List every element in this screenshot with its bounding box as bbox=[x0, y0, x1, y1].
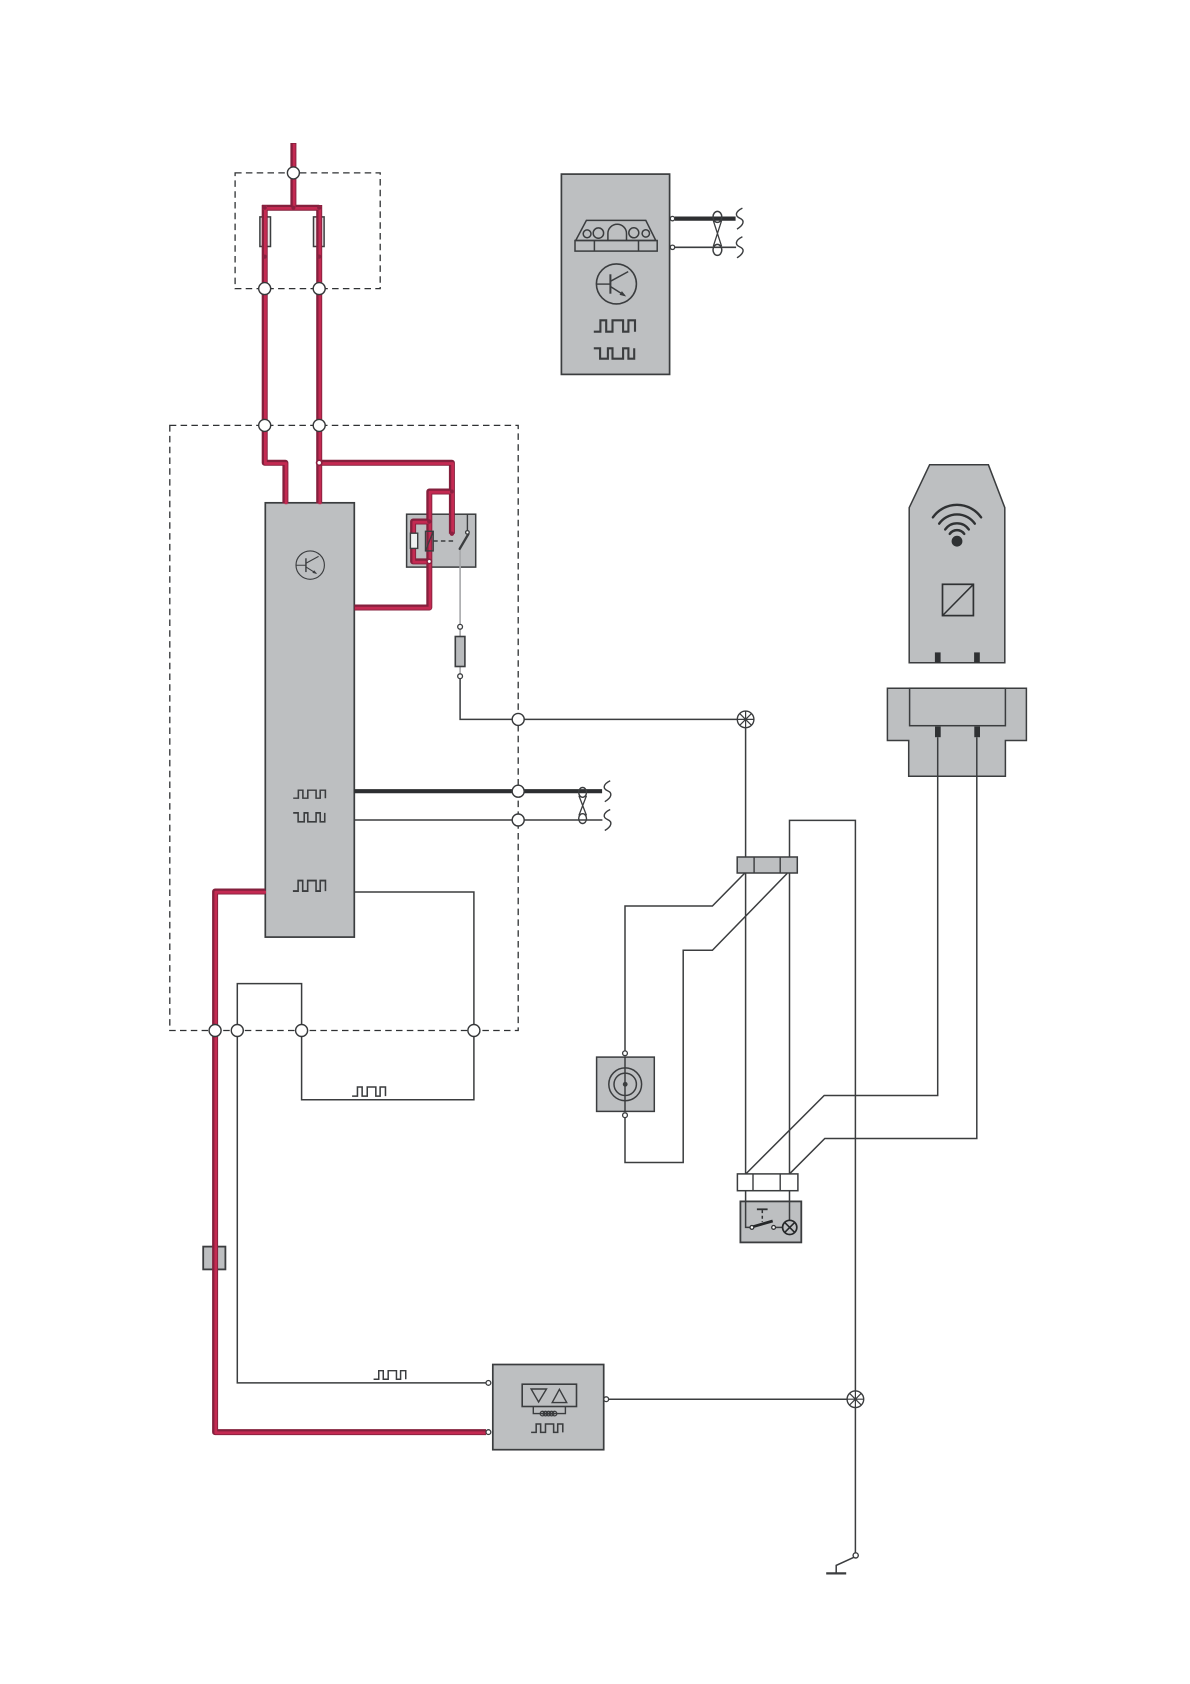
twisted pair symbol (cluster bus) bbox=[713, 211, 722, 255]
key fob radio dot bbox=[952, 536, 963, 547]
splice J1 bbox=[737, 711, 754, 728]
key fob contact pins bbox=[935, 652, 941, 662]
wire: siren internal bbox=[624, 1057, 626, 1111]
wire: node B down to module M1 input bbox=[237, 1031, 486, 1383]
wire: module M1 output to splice J2 bbox=[609, 1398, 848, 1400]
module M1 terminal rings bbox=[486, 1381, 491, 1386]
instrument cluster module U2 body bbox=[561, 174, 669, 374]
connector C2 (3-way, lower, open) bbox=[737, 1174, 798, 1191]
switch S1 blade bbox=[753, 1221, 773, 1227]
node: bottom border crossings bbox=[209, 1025, 221, 1037]
cluster U2 icon: instrument panel bbox=[575, 220, 657, 251]
ECU transistor symbol bbox=[296, 551, 324, 579]
ECU pulse symbols bbox=[293, 790, 326, 891]
inline terminal block T1 bbox=[203, 1247, 225, 1270]
wire: connector C1 pin3 to connector C2 pin3 bbox=[789, 873, 791, 1174]
border pass-through nodes (white circles) bbox=[209, 167, 524, 1037]
pulse symbol on border loop wire bbox=[352, 1087, 385, 1096]
fuse box (dashed enclosure) bbox=[235, 173, 380, 289]
receiver socket inner cavity bbox=[910, 688, 1006, 726]
wire: loop above border (node C to node B) bbox=[237, 984, 301, 1031]
relay K1 fixed contact lead bbox=[466, 514, 468, 530]
wire: cluster U2 bus (thick) bbox=[675, 217, 736, 221]
control module U1 (alarm ECU body) bbox=[265, 503, 354, 937]
siren H1 speaker rings bbox=[609, 1068, 642, 1101]
wire: splice J2 to ground G1 bbox=[854, 1408, 856, 1553]
module M1 down triangle bbox=[531, 1389, 546, 1402]
fuse F1 body bbox=[260, 217, 271, 247]
wire: relay coil to ECU drive pin bbox=[354, 522, 429, 608]
wire: connector C1 pin1 to connector C2 pin1 bbox=[745, 873, 747, 1174]
junction dot: red branch to relay bbox=[450, 490, 454, 494]
node ring: ECU supply branch bbox=[317, 460, 322, 465]
relay K1 actuation link (dashed) bbox=[433, 540, 453, 542]
siren H1 body bbox=[597, 1057, 655, 1111]
cluster U2 transistor symbol bbox=[596, 264, 636, 304]
siren H1 terminal rings bbox=[623, 1051, 628, 1056]
wire break marks (ECU bus) bbox=[604, 781, 611, 831]
relay K1 coil terminal dots bbox=[427, 519, 431, 523]
switch S1 with indicator lamp body bbox=[740, 1201, 801, 1242]
wire break marks (cluster bus) bbox=[736, 208, 743, 258]
wire: connector C2 pin1 to switch S1 bbox=[746, 1191, 750, 1228]
fuse FU3 terminal rings bbox=[458, 624, 463, 629]
module M1 window icon frame bbox=[522, 1384, 576, 1406]
receiver socket pins bbox=[935, 727, 941, 738]
switch S1 terminal rings bbox=[750, 1226, 754, 1230]
relay K1 coil bbox=[426, 531, 434, 551]
wire: ECU serial bus (thick) bbox=[354, 789, 602, 793]
module M1 up triangle bbox=[552, 1389, 567, 1402]
wire: branch to relay contact bbox=[319, 463, 452, 534]
module M1 motor bracket bbox=[533, 1407, 565, 1414]
node: fuse box outputs bbox=[259, 283, 271, 295]
splice J2 bbox=[847, 1391, 864, 1408]
cluster U2 terminal rings bbox=[670, 216, 674, 220]
fuse F2 body bbox=[314, 217, 325, 247]
relay K1 body bbox=[407, 514, 476, 567]
wire: receiver pin2 to connector C2 pin3 bbox=[790, 737, 977, 1173]
module M1 (lock motor unit) body bbox=[493, 1365, 604, 1450]
wire: ECU signal out to border node bbox=[354, 892, 474, 1031]
wire: switch S1 to lamp L1 bbox=[776, 1226, 783, 1228]
node: feed into fuse box bbox=[287, 167, 299, 179]
battery feed wires (red) bbox=[215, 143, 487, 1433]
fuse box junction dots bbox=[291, 206, 295, 210]
key fob radio waves icon bbox=[933, 505, 981, 534]
wire: branch to relay coil bbox=[429, 492, 452, 522]
wire: loop below border (node D to node C) bbox=[302, 1031, 474, 1100]
wire: connector C2 pin3 to lamp L1 bbox=[789, 1191, 791, 1221]
alarm control unit enclosure (dashed) bbox=[170, 425, 518, 1030]
relay K1 resistor bbox=[410, 533, 417, 548]
wire: feed split bar bbox=[262, 205, 319, 211]
node: serial bus crossings bbox=[512, 785, 524, 797]
wire: cluster U2 bus (thin) bbox=[675, 246, 736, 248]
cluster U2 pulse symbols bbox=[594, 320, 635, 358]
remote transmitter (key fob) body bbox=[909, 465, 1005, 663]
wire: fuse FU3 to splice J1 bbox=[460, 679, 737, 720]
wire: ECU serial bus (thin) bbox=[354, 819, 602, 821]
wire: siren minus loop to connector C1 pin3 bbox=[625, 873, 787, 1162]
wire: ECU to module M1 supply bbox=[215, 892, 486, 1433]
ground G1 terminal ring bbox=[853, 1553, 858, 1558]
ground G1 lead bbox=[836, 1557, 853, 1573]
wire: splice J1 down to connector C1 bbox=[745, 728, 747, 857]
wire: battery feed into fuse box bbox=[290, 143, 296, 208]
relay K1 contact blade bbox=[460, 534, 469, 549]
relay K1 contact ring bbox=[466, 531, 470, 535]
node: alarm unit supply inputs bbox=[259, 419, 271, 431]
twisted pair symbol (ECU bus) bbox=[579, 788, 587, 824]
switch S1 push symbol bbox=[757, 1208, 768, 1210]
wire: fuse F1 to ECU supply pin bbox=[265, 205, 286, 504]
connector C1 (3-way, upper) bbox=[737, 857, 797, 873]
wire: relay switch to fuse FU3 (grey) bbox=[459, 549, 461, 674]
wire: fuse F2 to ECU supply pin bbox=[316, 205, 322, 504]
indicator lamp L1 bbox=[783, 1220, 797, 1234]
receiver socket body bbox=[887, 688, 1026, 776]
wire: connector C1 pin3 up-over-down to splice J2 bbox=[790, 820, 856, 1391]
key fob battery icon (square with diagonal) bbox=[943, 584, 974, 615]
fuse FU3 body bbox=[455, 637, 465, 667]
relay K1 contact feed dot bbox=[450, 532, 454, 536]
pulse symbol on M1 input wire bbox=[374, 1371, 406, 1380]
ground G1 bar bbox=[826, 1572, 846, 1574]
wire: connector C1 pin1 to siren plus bbox=[625, 873, 745, 1051]
wire: receiver pin1 to connector C2 pin1 bbox=[746, 737, 938, 1173]
node: fused output to siren feed bbox=[512, 713, 524, 725]
relay coil shunt loop bbox=[413, 522, 429, 562]
module M1 pulse symbol bbox=[531, 1424, 563, 1432]
module M1 motor coil bbox=[540, 1411, 557, 1416]
